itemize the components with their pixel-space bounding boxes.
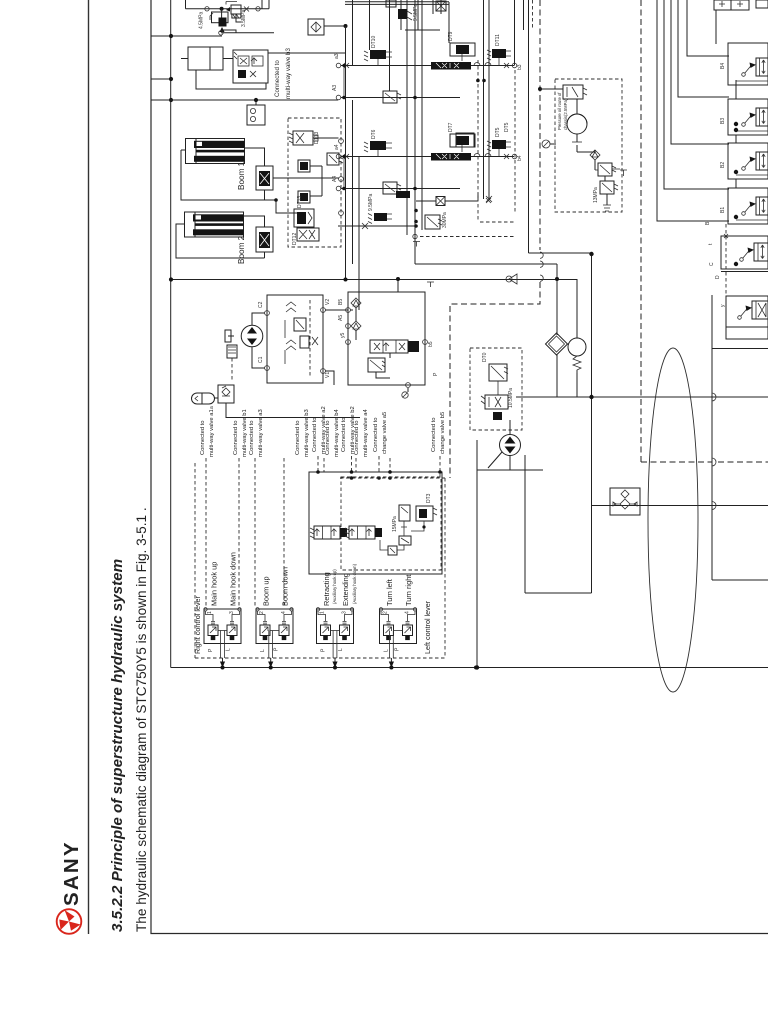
svg-text:Extending: Extending	[341, 573, 350, 606]
svg-text:3: 3	[342, 611, 348, 614]
svg-text:Connected to: Connected to	[249, 421, 255, 455]
svg-text:DT13: DT13	[297, 196, 303, 208]
svg-text:30MPa: 30MPa	[442, 212, 448, 228]
svg-text:9.5MPa: 9.5MPa	[368, 194, 374, 211]
svg-text:V2: V2	[325, 299, 331, 305]
svg-text:Main hook up: Main hook up	[210, 562, 219, 606]
svg-text:B5: B5	[338, 299, 344, 305]
svg-text:13MPa: 13MPa	[593, 187, 599, 203]
svg-text:DT5: DT5	[495, 127, 501, 137]
svg-text:3.5.2.2 Principle of superstru: 3.5.2.2 Principle of superstructure hydr…	[109, 559, 126, 932]
svg-text:B4: B4	[720, 63, 726, 69]
svg-text:10.5MPa: 10.5MPa	[508, 388, 514, 408]
svg-text:DT10: DT10	[371, 36, 377, 48]
svg-text:Connected to: Connected to	[341, 418, 347, 452]
svg-text:A5: A5	[338, 315, 344, 321]
svg-text:DT5: DT5	[504, 122, 510, 132]
svg-text:multi-way valve a1: multi-way valve a1	[209, 409, 215, 457]
svg-text:change valve b5: change valve b5	[440, 412, 446, 454]
svg-text:C1: C1	[258, 356, 264, 363]
svg-text:DT0: DT0	[482, 352, 488, 362]
svg-text:Connected to: Connected to	[373, 418, 379, 452]
svg-text:(Auxiliary hook up): (Auxiliary hook up)	[332, 569, 337, 604]
svg-text:DT3: DT3	[426, 493, 432, 503]
svg-text:multi-way valve b1: multi-way valve b1	[242, 409, 248, 457]
svg-text:multi-way valve a4: multi-way valve a4	[363, 409, 369, 457]
svg-text:a4: a4	[334, 144, 340, 150]
svg-text:B2: B2	[720, 162, 726, 168]
svg-text:A4: A4	[332, 176, 338, 182]
svg-text:Connected to: Connected to	[431, 418, 437, 452]
svg-text:V1: V1	[325, 372, 331, 378]
svg-text:b5: b5	[428, 341, 434, 347]
svg-text:C2: C2	[258, 301, 264, 308]
svg-text:3: 3	[229, 611, 235, 614]
svg-text:Connected to: Connected to	[274, 60, 281, 97]
svg-text:Pressure oil route of: Pressure oil route of	[557, 92, 562, 130]
svg-text:4.5MPa: 4.5MPa	[199, 12, 205, 29]
svg-text:multi-way valve b4: multi-way valve b4	[334, 409, 340, 457]
svg-text:multi-way valve b3: multi-way valve b3	[285, 48, 292, 99]
svg-text:B1: B1	[720, 207, 726, 213]
svg-text:b4: b4	[517, 155, 523, 161]
svg-text:1: 1	[207, 611, 213, 614]
svg-text:Boom down: Boom down	[281, 567, 290, 606]
svg-text:Connected to: Connected to	[295, 421, 301, 455]
svg-text:DT12: DT12	[292, 233, 298, 245]
svg-text:Turn left: Turn left	[385, 579, 394, 606]
svg-text:a: a	[209, 406, 215, 409]
svg-text:4: 4	[281, 611, 287, 614]
svg-text:Boom 1: Boom 1	[237, 161, 246, 190]
svg-text:2: 2	[259, 611, 265, 614]
svg-text:D: D	[715, 275, 721, 279]
svg-text:Main hook down: Main hook down	[229, 552, 238, 606]
svg-text:4: 4	[405, 611, 411, 614]
svg-text:Boom up: Boom up	[262, 576, 271, 606]
svg-text:Boom 2: Boom 2	[237, 235, 246, 264]
svg-text:9.5MPa: 9.5MPa	[413, 4, 419, 21]
svg-text:Left control lever: Left control lever	[423, 600, 432, 654]
svg-text:Connected to: Connected to	[354, 421, 360, 455]
svg-text:(Auxiliary hook down): (Auxiliary hook down)	[352, 563, 357, 604]
svg-text:Connected to: Connected to	[312, 418, 318, 452]
svg-text:a3: a3	[334, 53, 340, 59]
svg-text:L: L	[384, 649, 390, 652]
svg-text:L: L	[260, 649, 266, 652]
svg-text:b3: b3	[517, 64, 523, 70]
svg-text:C: C	[709, 262, 715, 266]
svg-text:B3: B3	[720, 118, 726, 124]
svg-text:SANY: SANY	[60, 840, 83, 906]
svg-text:The hydraulic schematic diagra: The hydraulic schematic diagram of STC75…	[134, 507, 149, 932]
svg-text:Turn right: Turn right	[404, 575, 413, 606]
svg-text:L: L	[338, 648, 344, 651]
svg-text:chassis(2.5MPa): chassis(2.5MPa)	[563, 98, 568, 130]
svg-text:DT11: DT11	[495, 34, 501, 46]
svg-text:multi-way valve a3: multi-way valve a3	[258, 409, 264, 457]
svg-text:change valve a5: change valve a5	[382, 412, 388, 454]
svg-text:3.5MPa: 3.5MPa	[241, 10, 247, 27]
svg-text:Connected to: Connected to	[200, 421, 206, 455]
svg-text:Connected to: Connected to	[233, 421, 239, 455]
svg-text:DT9: DT9	[448, 31, 454, 41]
svg-text:y5: y5	[340, 333, 346, 339]
svg-text:multi-way valve b3: multi-way valve b3	[304, 409, 310, 457]
svg-text:15MPa: 15MPa	[392, 516, 398, 532]
svg-text:A3: A3	[332, 85, 338, 91]
svg-text:2: 2	[383, 611, 389, 614]
svg-text:L: L	[226, 648, 232, 651]
svg-text:Connected to: Connected to	[325, 421, 331, 455]
svg-text:1: 1	[320, 611, 326, 614]
svg-text:Retracting: Retracting	[322, 572, 331, 606]
svg-text:DT7: DT7	[448, 122, 454, 132]
svg-text:Right control lever: Right control lever	[193, 595, 202, 654]
svg-text:DT6: DT6	[371, 129, 377, 139]
